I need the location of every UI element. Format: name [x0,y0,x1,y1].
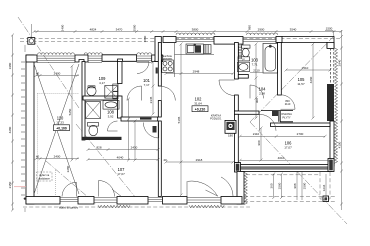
roof overhang dashed line lower [20,40,157,42]
door living terrace leaf b [221,177,233,196]
svg-text:17,07: 17,07 [117,172,125,176]
insulation sawtooth step side [244,173,247,205]
dim 107 a [88,149,158,151]
exterior wall bottom room106 corner R [328,159,334,172]
svg-text:2400: 2400 [54,155,61,159]
dim below 106 c [325,174,327,201]
insulation hatch above window 1 [38,53,75,55]
svg-text:4,17: 4,17 [99,81,105,85]
kitchen counter [175,43,215,78]
window top-mid kitchen [176,38,214,42]
interior wall living/104 lower [235,95,239,111]
svg-text:2490: 2490 [61,24,65,31]
washbasin room 109 [87,86,96,95]
svg-text:40: 40 [36,155,40,159]
red marker left [14,186,26,188]
entry steps sawtooth [98,205,130,208]
svg-text:3800: 3800 [192,27,199,31]
svg-text:5250: 5250 [68,108,72,115]
diagonal dash-dot line bottom-right [250,122,347,224]
exterior wall step x155 [155,37,161,62]
kitchen dishwasher [204,45,211,54]
dim bath 2110 [250,71,263,73]
diagonal dash-dot line lower-left [46,161,96,204]
dim garage vertical [71,66,73,160]
interior wall bath right upper [118,62,123,84]
window top-left 3 [137,56,152,63]
svg-text:40: 40 [36,71,40,75]
exterior wall right glazing upper [331,48,334,84]
window top-mid bath [243,38,276,42]
thin wall top-right inner [282,42,327,48]
svg-text:40: 40 [163,158,167,162]
svg-text:3,92: 3,92 [108,115,114,119]
door entry [98,181,100,197]
corner block top-right [327,42,334,48]
insulation sawtooth right side [335,48,338,163]
svg-text:2110: 2110 [253,132,260,136]
insulation hatch above window 3 [137,53,152,55]
dim living horizontal [166,161,233,163]
exterior wall bottom segment c [117,197,148,205]
svg-text:17,07: 17,07 [284,146,292,150]
svg-text:908: 908 [293,183,297,188]
thin wall top-right outer [282,37,334,49]
dim hall vertical b [134,121,136,160]
svg-text:4824: 4824 [90,27,97,31]
utility box outside top-left [28,38,35,45]
dim 107 b [88,159,158,161]
svg-text:4100: 4100 [337,141,341,148]
exterior wall right solid mid [327,84,334,121]
toilet room 103 [242,45,251,48]
dim below 106 b [301,172,303,200]
svg-text:PŁYTY: PŁYTY [282,115,290,119]
exterior wall bottom room106 [237,165,332,172]
door 104 to 103 [249,85,251,98]
garage door threshold [60,198,78,202]
dim hall vertical c [152,62,154,114]
diagonal dash-dot line top-left [18,17,79,108]
svg-text:Wjazd do garażu: Wjazd do garażu [59,205,79,209]
exterior wall top-left end block [152,55,163,62]
door 104 to 105 [281,108,296,110]
washer dryer stack 109 [113,84,118,91]
svg-text:+0,100: +0,100 [56,126,67,130]
dark box niche [272,111,278,116]
svg-text:4010: 4010 [278,156,285,160]
exterior wall left [26,55,34,204]
svg-text:PODŁOG.: PODŁOG. [210,117,222,121]
svg-text:4280: 4280 [8,126,12,133]
insulation hatch above window 2 [84,53,102,55]
exterior wall bottom segment d [163,197,188,205]
dim kitchen horizontal [166,73,233,75]
exterior wall bottom room106 core [239,166,330,169]
svg-text:2430: 2430 [131,145,138,149]
dim line left secondary [24,45,26,212]
washbasin room 103 [237,62,249,71]
interior wall 103/104 [238,75,248,79]
svg-text:2280: 2280 [66,165,70,172]
door garage [76,183,78,197]
toilet room 108 [88,123,99,127]
interior wall 103/105 [278,43,282,96]
interior wall living/106 spur [235,114,239,162]
terrace dashed outline bottom middle [23,206,250,208]
dim 105 vertical [312,44,314,118]
insulation hatch above kitchen window [176,33,215,35]
interior wall hall/living short [158,101,161,118]
dim 106 b [240,159,330,161]
svg-text:2580: 2580 [133,24,137,31]
svg-text:1590: 1590 [303,182,307,189]
svg-text:3540: 3540 [290,27,297,31]
dim 106 c [260,128,262,160]
door living to 104 [219,79,235,81]
svg-text:pr.: pr. [242,57,245,61]
entry door threshold [94,198,117,203]
svg-text:2400: 2400 [54,71,61,75]
terrace dashed lines right of lower step [244,197,335,202]
svg-text:17,33: 17,33 [56,121,64,125]
svg-text:1880: 1880 [143,35,147,42]
door living terrace leaf a [186,181,188,196]
interior wall hall bottom [121,117,158,121]
exterior wall bottom segment e [221,197,242,205]
kitchen stove [162,60,174,72]
dim below 106 pre-a [274,174,282,198]
interior wall between 109 and 108 [83,96,120,100]
interior wall hall/living upper [158,43,161,87]
exterior wall top-mid segment a [163,37,176,43]
svg-text:7,71: 7,71 [252,63,258,67]
interior wall hall bottom dark core [140,118,152,120]
window top-left 1 [37,56,75,63]
shower room 108 [86,102,101,119]
terrace door threshold [187,198,221,203]
svg-text:wyłaz na: wyłaz na [39,173,50,177]
dashed terrace line below 106 [246,174,320,176]
dim 105 horizontal [286,69,330,71]
svg-text:31,64: 31,64 [194,102,202,106]
dim garage top [36,75,79,77]
dim hall vertical a [128,99,130,160]
exterior wall top-mid segment c [276,37,282,43]
door 104 to 106 [259,114,261,131]
interior wall 104 bottom-left [235,111,260,114]
window top-left 2 [88,56,102,63]
dim line right [341,30,343,210]
insulation hatch above bath window [247,33,278,35]
svg-text:11,57: 11,57 [297,82,305,86]
interior wall 107/living [158,121,161,197]
interior wall garage right / bath left [82,62,85,141]
svg-text:2900: 2900 [258,27,265,31]
dim below 106 a [296,172,298,200]
svg-text:2918: 2918 [196,158,203,162]
bathtub room 103 [263,43,278,73]
svg-text:gazowa: gazowa [163,58,172,61]
terrace corner post bottom right [323,196,329,202]
note attic hatch [37,172,53,181]
svg-text:828: 828 [96,145,101,149]
svg-text:2110: 2110 [285,102,291,106]
svg-text:7,17: 7,17 [144,83,150,87]
dim line top [34,31,341,33]
chimney flue ladder hatch [239,46,242,59]
washer room 103 [238,57,250,61]
insulation ticks left wall [21,62,25,195]
exterior wall top-left pier [75,55,88,62]
svg-text:2345: 2345 [149,96,153,103]
svg-text:1980: 1980 [8,62,12,69]
svg-text:4040: 4040 [117,155,124,159]
door wc 108 [108,130,118,132]
door hall to living [160,87,162,101]
door hall to 107 [158,123,160,139]
exterior wall bottom segment a [26,197,60,205]
kitchen sink [186,44,204,54]
svg-text:180: 180 [228,134,233,138]
svg-text:+0,210: +0,210 [195,107,206,111]
svg-text:3470: 3470 [116,27,123,31]
svg-text:360: 360 [270,183,274,188]
svg-text:1234: 1234 [322,184,326,191]
dim 104 vertical [255,44,257,118]
pilaster top-left corner [26,55,37,62]
diagonal dash-dot line mid-left [76,124,140,203]
svg-text:2,98: 2,98 [259,92,265,96]
roof overhang dashed line upper [20,38,340,40]
door hall top [137,61,149,63]
door living terrace mid leaf [206,190,219,196]
exterior wall right lower [330,121,334,166]
svg-text:900: 900 [257,140,261,145]
corner blob [24,198,26,200]
svg-text:5165: 5165 [177,116,181,123]
garage diagonal cross [34,64,79,194]
exterior wall step lower right [237,172,244,205]
exterior wall bottom room106 corner L [235,163,241,173]
interior wall living/103 [235,43,239,80]
svg-text:2510: 2510 [302,66,309,70]
sink room 108 [103,101,119,110]
dotted attic outline garage [38,94,80,197]
svg-text:2948: 2948 [193,69,200,73]
dim garage bottom [36,158,79,160]
interior wall WC bottom dark [82,137,122,140]
svg-text:880: 880 [248,25,252,30]
dark column near door 107 [153,126,157,133]
chimney block top wall [214,37,243,45]
niche lines right of 104 [261,111,293,122]
svg-text:1560: 1560 [277,182,281,189]
fireplace insert living room [225,120,236,133]
svg-text:2700: 2700 [297,132,304,136]
shower room 109 [105,86,118,99]
door hall to 109 [141,86,143,101]
svg-text:1500: 1500 [326,27,333,31]
terrace steps sawtooth [189,205,224,208]
dim 106 a [240,135,325,137]
svg-text:4260: 4260 [309,76,313,83]
exterior wall bottom segment b [78,197,94,205]
interior wall bath right mid [118,96,123,118]
window bottom 107 [148,198,163,202]
terrace dashed rect bottom right [320,172,330,199]
svg-text:2940: 2940 [337,59,341,66]
door frame dark hall wall [156,68,158,74]
svg-text:2110: 2110 [253,68,260,72]
dim line left [12,35,14,210]
dim living vertical [180,44,182,195]
interior wall 106 top [271,123,331,127]
line to utility box [30,24,32,38]
exterior wall top-left long block [102,55,137,62]
svg-text:poddasze: poddasze [39,177,51,181]
svg-text:2350: 2350 [8,181,12,188]
diagonal dash-dot line room 105 [250,36,334,122]
